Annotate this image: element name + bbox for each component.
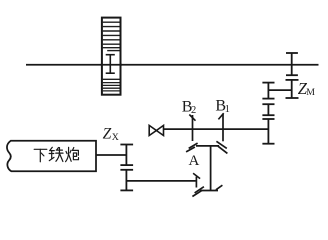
wire main horizontal shaft [26, 64, 319, 66]
box of mechanism [7, 141, 96, 172]
coupling bowtie [149, 125, 163, 135]
wire vertical shaft A [210, 146, 212, 191]
bevel pinion B2 [186, 115, 198, 152]
gear G1 on main shaft [286, 53, 298, 75]
svg-text:Z: Z [103, 126, 112, 143]
gear G2 meshing with G1 [286, 80, 299, 98]
nut block hatch top [103, 22, 120, 50]
wire counter shaft [268, 89, 291, 91]
svg-text:X: X [112, 132, 119, 143]
wire shaft through nut [101, 64, 123, 66]
gear ZX1 [120, 145, 133, 166]
wire lower drive shaft [126, 180, 195, 182]
gear ZX2 [120, 170, 133, 191]
gear G5 on B shaft [262, 119, 274, 144]
wire B shaft [164, 128, 269, 130]
text tie in box [49, 147, 63, 161]
nut inner I symbol [106, 55, 115, 73]
nut block body [102, 18, 121, 95]
bevel wheel bottom rim [200, 185, 223, 190]
svg-text:A: A [189, 153, 200, 169]
wire drive shaft from box [96, 154, 126, 156]
bevel pinion on lower shaft [192, 173, 204, 196]
bevel pinion B1 [216, 113, 227, 153]
text pao in box [66, 147, 79, 161]
svg-text:1: 1 [225, 104, 230, 115]
svg-text:2: 2 [191, 105, 196, 116]
bevel wheel A rim [196, 145, 219, 147]
svg-text:M: M [306, 87, 315, 98]
text xia in box [34, 147, 78, 162]
nut block hatch bottom [103, 79, 120, 91]
clutch half G4 [262, 104, 274, 115]
gear G3 on counter shaft [262, 83, 274, 99]
